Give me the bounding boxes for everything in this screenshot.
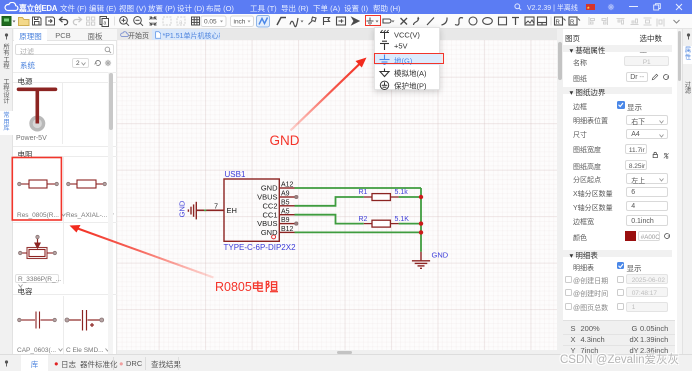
icon +5V bbox=[380, 41, 389, 50]
wire tool (active blue) bbox=[257, 16, 270, 28]
net flag bbox=[383, 19, 391, 23]
svg-text:A9: A9 bbox=[281, 191, 290, 198]
arc bbox=[442, 18, 448, 26]
separator bbox=[114, 17, 116, 26]
snippets (disabled) bbox=[87, 17, 90, 20]
svg-text:VBUS: VBUS bbox=[257, 193, 277, 202]
section 电容 bbox=[13, 283, 117, 295]
DRC marker circle bbox=[272, 235, 276, 239]
toolbar placeholder: icons svg inserted here bbox=[0, 14, 692, 29]
paste bbox=[100, 17, 107, 25]
line bbox=[427, 18, 434, 26]
status numbers sub-panel bbox=[563, 320, 675, 354]
zoom region disabled bbox=[163, 17, 171, 25]
wire right rail vertical bbox=[420, 188, 422, 252]
svg-text:0.05: 0.05 bbox=[204, 19, 217, 26]
watermark bbox=[560, 351, 679, 367]
pen/bezier bbox=[414, 18, 419, 25]
svg-text:GND: GND bbox=[261, 228, 278, 237]
icon VCC bbox=[380, 30, 389, 39]
fit view bbox=[150, 17, 157, 25]
probe arrow bbox=[352, 18, 359, 25]
svg-text:USB1: USB1 bbox=[225, 170, 246, 179]
svg-text:inch: inch bbox=[234, 19, 246, 26]
tiny green wire joint bbox=[204, 209, 206, 211]
pin numbers (outside) bbox=[281, 182, 294, 233]
system row bbox=[20, 60, 35, 71]
selection red box on left panel resistor bbox=[12, 158, 61, 221]
import bbox=[46, 17, 55, 25]
panel tabs bbox=[13, 29, 117, 41]
svg-text:A12: A12 bbox=[281, 182, 294, 189]
left panel bbox=[13, 29, 117, 355]
annotation arrow to resistor cell bbox=[75, 228, 214, 278]
res cell1 symbol bbox=[18, 180, 59, 188]
svg-text:R1: R1 bbox=[359, 189, 368, 196]
resistor R2 bbox=[359, 216, 410, 227]
filter input bbox=[15, 44, 114, 55]
separator bbox=[550, 17, 552, 26]
junction at B12 / GND rail bbox=[419, 230, 423, 234]
grid bbox=[192, 17, 200, 25]
annotation arrow to 地(G) bbox=[291, 63, 362, 131]
icon 地(G) bbox=[379, 54, 389, 64]
wire R1 right to rail bbox=[399, 196, 421, 198]
open folder bbox=[19, 18, 30, 26]
svg-text:B9: B9 bbox=[281, 217, 290, 224]
svg-text:a: a bbox=[104, 21, 107, 27]
doc tab bar bbox=[117, 29, 557, 41]
svg-text:A5: A5 bbox=[281, 208, 290, 215]
unconnected pin circle A9 bbox=[295, 195, 298, 198]
svg-text:5.1K: 5.1K bbox=[395, 216, 410, 223]
power-5V cell bbox=[13, 83, 117, 144]
pin names (inside) bbox=[257, 184, 278, 237]
svg-text:B5: B5 bbox=[281, 199, 290, 206]
glyph 电 bbox=[254, 283, 263, 288]
left panel scrollbar bbox=[108, 72, 113, 354]
right vertical strip bbox=[682, 29, 692, 355]
circle bbox=[469, 17, 477, 25]
svg-text:R: R bbox=[570, 20, 575, 26]
svg-text:EH: EH bbox=[227, 206, 237, 215]
wire B12 GND to rail bbox=[295, 231, 422, 233]
pin 7 wire (left) bbox=[196, 209, 224, 211]
wire B5 CC2 to R1 bbox=[295, 197, 364, 206]
reuse blocks bbox=[555, 17, 563, 25]
save bbox=[33, 17, 42, 25]
inch dropdown bbox=[231, 16, 254, 27]
svg-text:R2: R2 bbox=[359, 216, 368, 223]
new project (green) bbox=[2, 17, 11, 26]
svg-text:B12: B12 bbox=[281, 226, 294, 233]
junction at R2 / GND rail bbox=[419, 221, 423, 225]
top menu bar bbox=[0, 0, 692, 14]
net port bbox=[337, 17, 346, 25]
svg-text:VCC(V): VCC(V) bbox=[394, 30, 420, 39]
image bbox=[525, 17, 534, 25]
section 电源 bbox=[13, 72, 117, 83]
svg-text:GND: GND bbox=[261, 184, 278, 193]
ground tool (red boxed) bbox=[367, 18, 374, 26]
rect bbox=[499, 17, 507, 25]
wire A5 CC1 to R2 bbox=[295, 215, 364, 224]
right panel bbox=[563, 29, 678, 355]
svg-text:GND: GND bbox=[178, 200, 187, 217]
no connect X bbox=[401, 18, 408, 25]
svg-text:保护地(P): 保护地(P) bbox=[394, 80, 427, 90]
svg-text:TYPE-C-6P-DIP2X2: TYPE-C-6P-DIP2X2 bbox=[224, 243, 297, 252]
junction at R1 / GND rail bbox=[419, 195, 423, 199]
redo (disabled) bbox=[73, 20, 81, 25]
scurve bbox=[455, 18, 463, 25]
svg-text:GND: GND bbox=[432, 251, 449, 260]
svg-text:R: R bbox=[556, 20, 561, 26]
svg-text:模拟地(A): 模拟地(A) bbox=[394, 68, 427, 78]
right pin stubs bbox=[279, 188, 294, 232]
text bbox=[512, 18, 519, 26]
wire A12 GND to right rail bbox=[295, 187, 422, 189]
red box on menu item 地(G) bbox=[374, 53, 444, 64]
schematic drawing bbox=[117, 40, 557, 350]
svg-text:VBUS: VBUS bbox=[257, 219, 277, 228]
svg-text:7: 7 bbox=[214, 204, 218, 211]
potentiometer cell bbox=[13, 222, 117, 284]
res cell2 symbol bbox=[67, 180, 107, 188]
resistor R1 bbox=[359, 189, 409, 200]
disabled align icons bbox=[589, 17, 595, 25]
capacitor cells bbox=[13, 296, 117, 355]
flag bbox=[324, 17, 330, 25]
svg-text:5.1k: 5.1k bbox=[395, 189, 409, 196]
ground GND (bottom right) bbox=[412, 252, 430, 268]
svg-text:+5V: +5V bbox=[394, 41, 408, 50]
ground GND (left, rotated) bbox=[188, 202, 196, 220]
ellipse bbox=[483, 18, 493, 25]
left vertical strip bbox=[0, 29, 13, 355]
section 电阻 bbox=[13, 146, 117, 157]
wires (green) bbox=[295, 188, 422, 252]
unconnected pin circle B9 bbox=[295, 222, 298, 225]
svg-text:CC2: CC2 bbox=[262, 201, 277, 210]
svg-text:a: a bbox=[179, 20, 183, 26]
canvas bbox=[117, 40, 557, 350]
Power-5V symbol bbox=[13, 83, 62, 144]
undo bbox=[60, 20, 68, 25]
0.05 dropdown bbox=[201, 16, 226, 27]
sheet bbox=[538, 17, 547, 25]
bus bbox=[277, 18, 286, 26]
bottom status bar bbox=[0, 354, 692, 371]
wire R2 right to rail bbox=[399, 223, 421, 225]
icon 模拟地(A) bbox=[380, 68, 389, 76]
zoom out bbox=[134, 17, 142, 25]
red box on toolbar ground icon bbox=[365, 15, 381, 27]
resistor cells bbox=[13, 157, 117, 222]
wavy w bbox=[290, 18, 298, 27]
svg-text:CC1: CC1 bbox=[262, 210, 277, 219]
zoom in bbox=[120, 17, 128, 25]
USB1 component body bbox=[224, 179, 279, 241]
pin bbox=[309, 17, 317, 25]
icon 保护地(P) bbox=[380, 81, 388, 89]
glyph 阻 bbox=[265, 281, 267, 292]
power/ground dropdown menu bbox=[374, 27, 441, 90]
